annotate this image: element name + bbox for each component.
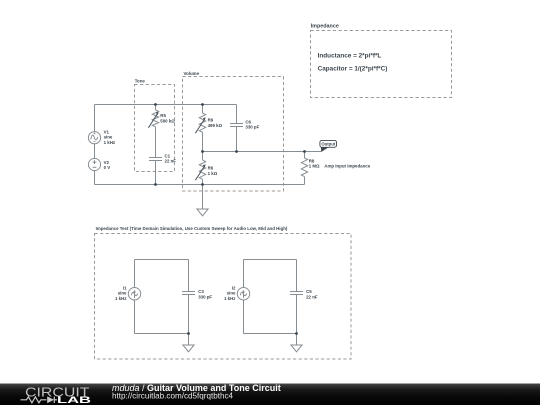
wire C3 bottom lead: [188, 295, 190, 334]
wire I2 bottom lead: [243, 300, 245, 334]
svg-text:Tone: Tone: [135, 79, 146, 84]
Impedance Test box: [95, 226, 352, 359]
wire C5 bottom lead: [296, 295, 298, 334]
ground (test left): [183, 334, 194, 352]
svg-text:22 nF: 22 nF: [165, 159, 177, 164]
svg-text:C5: C5: [306, 289, 312, 294]
svg-text:0 V: 0 V: [104, 165, 111, 170]
svg-text:330 pF: 330 pF: [198, 294, 212, 299]
wire C5 top lead: [296, 260, 298, 292]
node Output flag: [320, 140, 337, 152]
junction C3 bottom ground node: [187, 332, 190, 335]
svg-text:http://circuitlab.com/cd5fqrqt: http://circuitlab.com/cd5fqrqtbthc4: [112, 391, 234, 400]
svg-text:Impedance: Impedance: [311, 24, 339, 30]
wire I1 bottom lead: [134, 300, 136, 334]
wire I1 bottom to C3 bottom: [135, 333, 189, 335]
svg-text:R6: R6: [208, 165, 214, 170]
voltage source V1: [88, 132, 100, 144]
junction volume wiper node: [201, 150, 204, 153]
svg-text:Output: Output: [321, 142, 335, 147]
svg-text:1 kHz: 1 kHz: [115, 296, 127, 301]
potentiometer R5 (tone 500k): [152, 105, 158, 158]
svg-text:500 kΩ: 500 kΩ: [160, 118, 175, 123]
wire top rail: [95, 104, 237, 106]
svg-text:Impedance Test (Time Domain Si: Impedance Test (Time Domain Simulation, …: [96, 226, 288, 231]
svg-text:V2: V2: [104, 160, 110, 165]
Volume box: [183, 71, 284, 191]
voltage source V2: [88, 158, 100, 170]
junction ground stem on bottom rail: [201, 183, 204, 186]
svg-text:1 MΩ: 1 MΩ: [309, 163, 320, 168]
capacitor C1: [149, 158, 162, 185]
svg-text:R5: R5: [160, 113, 166, 118]
ground (test right): [291, 334, 302, 352]
svg-text:C6: C6: [245, 119, 251, 124]
current source I2: [237, 288, 249, 300]
svg-text:1 kHz: 1 kHz: [224, 296, 236, 301]
wire between V1 V2: [94, 144, 96, 159]
capacitor C6: [230, 105, 243, 152]
Tone box: [135, 79, 175, 172]
wire I1 top lead: [134, 260, 136, 288]
wire C3 top lead: [188, 260, 190, 292]
Impedance note box: [311, 24, 452, 98]
svg-text:C1: C1: [165, 153, 171, 158]
logo zigzag + diode: [21, 397, 58, 403]
capacitor C5: [290, 292, 303, 295]
wire bottom rail: [95, 184, 305, 186]
wire I2 top to C5 top: [244, 259, 297, 261]
current source I1: [128, 288, 140, 300]
potentiometer R9 (volume upper 499k): [199, 105, 205, 152]
wire I2 bottom to C5 bottom: [244, 333, 297, 335]
svg-text:1 kHz: 1 kHz: [104, 140, 116, 145]
junction R5 top on top rail: [154, 103, 157, 106]
svg-text:Capacitor = 1/(2*pi*f*C): Capacitor = 1/(2*pi*f*C): [318, 65, 388, 72]
junction R8 top on output rail: [303, 150, 306, 153]
svg-text:22 nF: 22 nF: [306, 294, 318, 299]
resistor R8 (amp input impedance 1M): [301, 152, 307, 185]
junction C6 bottom on output rail: [235, 150, 238, 153]
svg-text:R9: R9: [208, 118, 214, 123]
svg-text:C3: C3: [198, 289, 204, 294]
junction C1 bottom on bottom rail: [154, 183, 157, 186]
wire V2 to bottom: [94, 171, 96, 185]
svg-text:Amp Input Impedance: Amp Input Impedance: [324, 163, 370, 168]
wire middle rail: [203, 151, 322, 153]
junction R9 top on top rail: [201, 103, 204, 106]
svg-text:330 pF: 330 pF: [245, 125, 259, 130]
svg-text:LAB: LAB: [57, 395, 91, 405]
capacitor C3: [182, 292, 195, 295]
ground (main): [197, 185, 208, 216]
potentiometer R6 (volume lower 1k): [199, 152, 205, 185]
wire I2 top lead: [243, 260, 245, 288]
wire I1 top to C3 top: [135, 259, 189, 261]
svg-text:Volume: Volume: [184, 71, 200, 76]
svg-text:499 kΩ: 499 kΩ: [208, 123, 223, 128]
wire left rail upper: [94, 105, 96, 132]
svg-text:1 kΩ: 1 kΩ: [208, 171, 218, 176]
svg-text:Inductance = 2*pi*f*L: Inductance = 2*pi*f*L: [318, 52, 382, 59]
junction C5 bottom ground node: [295, 332, 298, 335]
